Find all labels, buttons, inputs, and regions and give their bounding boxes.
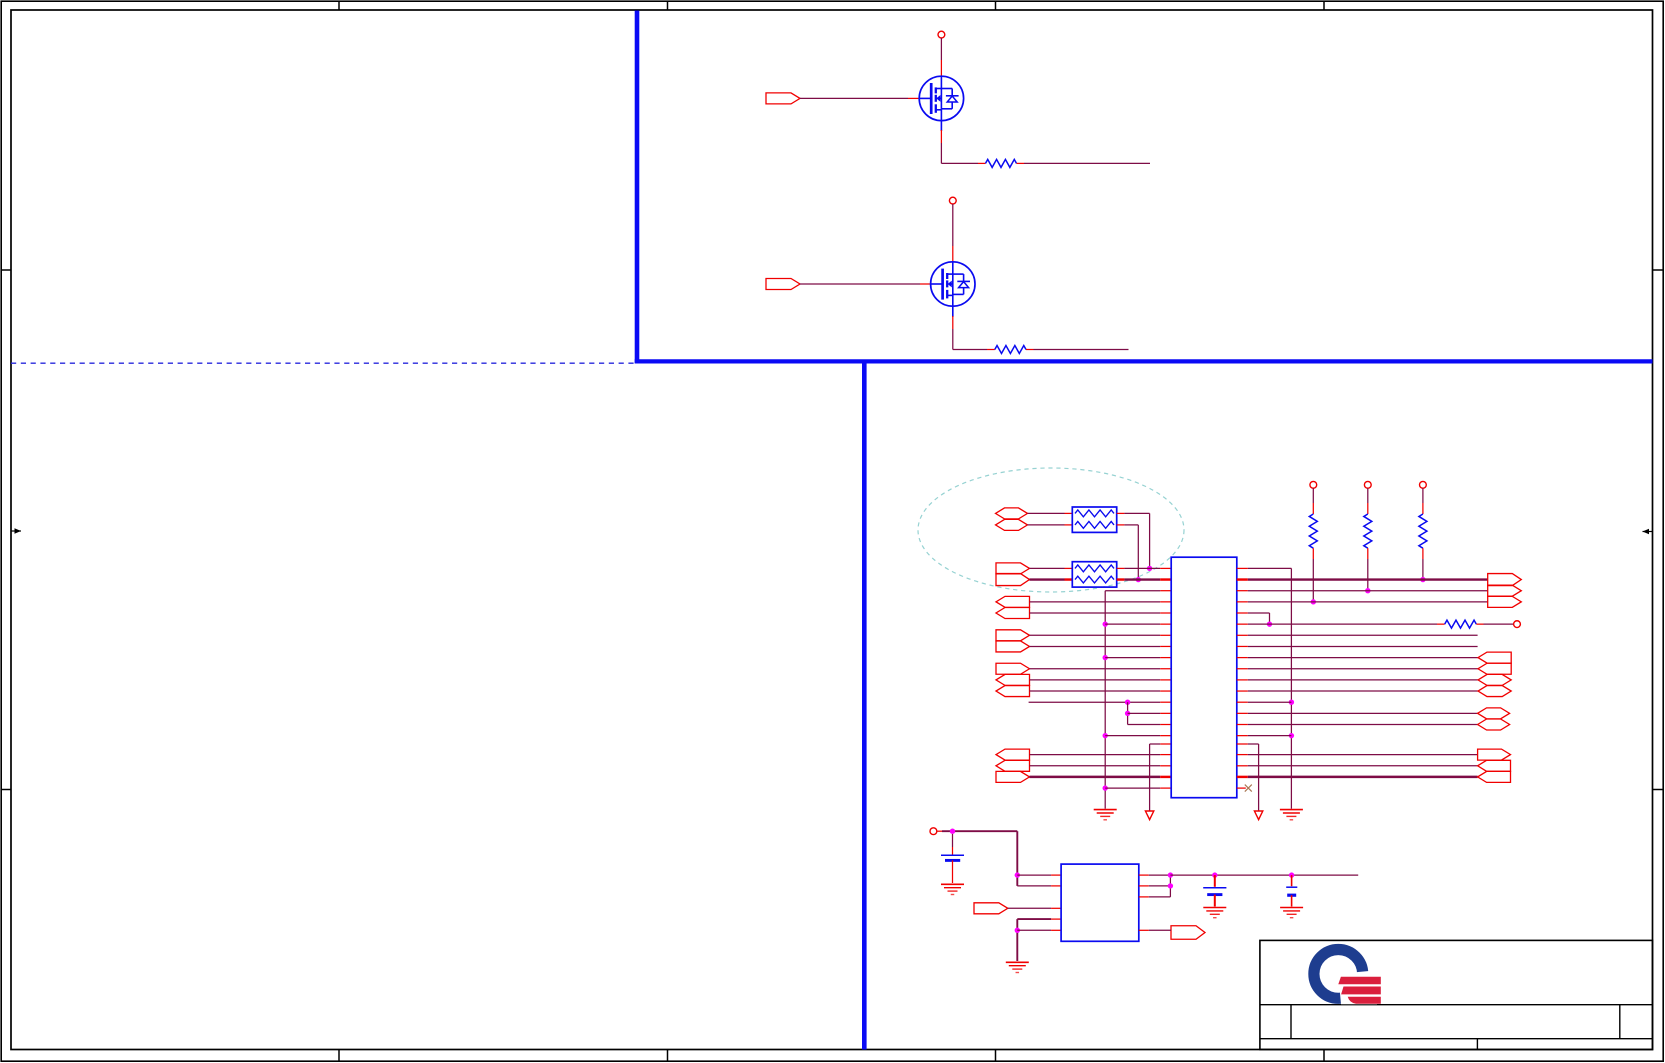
wire U1 row18 right [1237, 754, 1248, 756]
resistor pack RN2 [1072, 562, 1116, 587]
wire rail to U1 row6 [1105, 623, 1160, 625]
ground [1280, 809, 1303, 811]
net label F5 [1478, 708, 1510, 719]
net label F4 [1478, 686, 1511, 697]
net label E2 [1488, 585, 1522, 596]
capacitor C1 [952, 834, 954, 847]
wire after R1 [1017, 162, 1025, 164]
net label C7 [996, 686, 1030, 697]
wire U1 row3 to ground rail [1160, 590, 1171, 592]
junction [1420, 577, 1425, 582]
wire U1 row20 right (bus) [1237, 776, 1248, 778]
wire tie vertical [1169, 875, 1171, 897]
wire row13 stub [1029, 701, 1128, 703]
pin circle [1514, 621, 1521, 628]
junction [1365, 588, 1370, 593]
power pin PU3 [1310, 481, 1317, 488]
wire C3 to U1 [1030, 634, 1161, 636]
wire D1 to U1 [1030, 754, 1161, 756]
net label A1 [996, 508, 1028, 519]
wire U2 pinR2 [1139, 885, 1149, 887]
IC U1 [1171, 557, 1237, 798]
wire D2 to U1 [1030, 765, 1161, 767]
wire U1 row7 right [1237, 634, 1248, 636]
power pin P1 [938, 31, 945, 38]
wire gate Q2 [800, 283, 920, 285]
junction [1168, 872, 1173, 877]
junction [1103, 785, 1108, 790]
wire U1 row8 right [1237, 645, 1248, 647]
wire gate Q1 [800, 97, 908, 99]
wire U2 pinR4 [1139, 929, 1149, 931]
net label H2 [1171, 926, 1205, 940]
ground [1203, 907, 1226, 909]
junction [1311, 599, 1316, 604]
net label E1 [1488, 574, 1522, 586]
resistor RP2 [1364, 514, 1372, 548]
wire pull-up 2 bottom [1367, 548, 1369, 559]
wire U2 pin4 [1051, 918, 1061, 920]
junction [1168, 883, 1173, 888]
net label F2 [1478, 663, 1511, 674]
wire source Q2 [952, 306, 954, 317]
net label E3 [1488, 596, 1522, 607]
logo [1314, 950, 1381, 1005]
junction [1103, 655, 1108, 660]
wire B2 to RN2 (bus) [1030, 578, 1065, 580]
net label G2 [766, 279, 800, 290]
section divider vertical 2 (blue) [862, 361, 867, 1049]
junction [1125, 711, 1130, 716]
junction [1267, 621, 1272, 626]
wire RN2 to U1 row2 (bus) [1117, 578, 1125, 580]
wire rail to U1 row21 [1105, 787, 1160, 789]
wire U1 row9 right [1237, 657, 1248, 659]
power pin P2 [949, 197, 956, 204]
wire U1 row5 right [1237, 612, 1248, 614]
junction [1289, 700, 1294, 705]
title block [1260, 940, 1653, 1049]
IC U2 [1061, 864, 1139, 941]
wire U1 row15 right [1237, 724, 1248, 726]
net label F3 [1478, 674, 1511, 685]
net label G5 [1478, 771, 1511, 782]
wire out net [1170, 874, 1358, 876]
net label F1 [1478, 652, 1511, 663]
junction [950, 829, 955, 834]
wire RN2 to U1 row1 [1117, 567, 1125, 569]
wire pull-up 1 top [1422, 488, 1424, 503]
wire R6 to pin [1476, 623, 1483, 625]
wire U1 row21 right stub [1237, 787, 1246, 789]
net label F6 [1478, 719, 1510, 730]
net label G1 [766, 93, 800, 104]
junction [1212, 872, 1217, 877]
wire B1 to RN2 [1030, 567, 1065, 569]
wire rail to U1 row16 [1105, 735, 1160, 737]
resistor RP1 [1419, 514, 1427, 548]
wire U1 row16 right [1237, 735, 1248, 737]
wire U1 row19 right [1237, 765, 1248, 767]
wire C5 to U1 [1030, 668, 1161, 670]
wire tie 13-15 vertical [1127, 702, 1129, 724]
wire U1 row12 right [1237, 690, 1248, 692]
transistor Q2 [931, 262, 975, 306]
net label C6 [996, 674, 1030, 685]
wire RN1 out top [1117, 512, 1125, 514]
junction [1103, 733, 1108, 738]
wire vcc net [937, 830, 942, 832]
wire U1 row15 [1160, 724, 1171, 726]
net label C2 [996, 608, 1030, 619]
wire pull-up 3 top [1312, 488, 1314, 503]
transistor Q1 [919, 76, 963, 120]
wire U1 row17 left [1160, 743, 1171, 745]
wire U1 row13 right [1237, 701, 1248, 703]
resistor R1 [986, 159, 1017, 167]
wire U2 pin2 [1017, 885, 1051, 887]
junction [1125, 700, 1130, 705]
wire after R2 [1026, 349, 1034, 351]
net label D2 [996, 760, 1030, 771]
wire U1 row1 right to ground rail [1237, 567, 1248, 569]
junction [1289, 733, 1294, 738]
wire C7 to U1 [1030, 690, 1161, 692]
net label G3 [1478, 749, 1511, 760]
wire U1 row14 right [1237, 712, 1248, 714]
net label C4 [996, 641, 1030, 652]
junction [1147, 566, 1152, 571]
no-connect X [1245, 785, 1252, 792]
resistor pack RN1 [1072, 507, 1116, 532]
wire U1 row11 right [1237, 679, 1248, 681]
net label C1 [996, 596, 1030, 607]
junction [1103, 621, 1108, 626]
net label A2 [996, 519, 1028, 530]
wire U2 pin1 [1017, 874, 1051, 876]
ground [1094, 809, 1117, 811]
wire C6 to U1 [1030, 679, 1161, 681]
section divider horizontal (blue) [635, 359, 1653, 363]
wire RN1 out bottom [1117, 524, 1125, 526]
net label D1 [996, 749, 1030, 760]
wire U1 row17 right [1237, 743, 1248, 745]
net label C3 [996, 630, 1030, 641]
net label H1 [974, 903, 1008, 914]
wire pull-up 2 top [1367, 488, 1369, 503]
ground [1280, 907, 1303, 909]
power pin PU2 [1364, 481, 1371, 488]
power pin P3 [930, 828, 937, 835]
wire drain Q1 [940, 38, 942, 60]
wire D3 to U1 (bus) [1030, 776, 1161, 778]
section divider vertical (blue) [635, 11, 640, 364]
ground [941, 883, 964, 885]
wire U1 row14 [1160, 712, 1171, 714]
section divider dashed [11, 362, 634, 364]
wire U1 row6 right [1237, 623, 1248, 625]
net label B1 [996, 563, 1030, 574]
power flag down-arrow left [1145, 811, 1153, 820]
ground [1006, 961, 1029, 963]
wire C2 to U1 [1030, 612, 1161, 614]
junction [1289, 872, 1294, 877]
wire pull-up 3 bottom [1312, 548, 1314, 559]
resistor R2 [995, 346, 1026, 354]
power pin PU1 [1420, 481, 1427, 488]
wire U1 row4 right [1237, 601, 1248, 603]
power flag down-arrow right [1254, 811, 1262, 820]
wire U2 pinR1 [1139, 874, 1149, 876]
resistor R6 [1445, 620, 1477, 628]
wire U2 pin5 [1017, 929, 1051, 931]
wire C1 to U1 [1030, 601, 1161, 603]
capacitor C3 [1291, 875, 1293, 886]
wire U1 row10 right [1237, 668, 1248, 670]
highlight ellipse [918, 468, 1184, 592]
wire source Q1 [940, 121, 942, 131]
net label C5 [996, 663, 1030, 674]
net label B2 [996, 574, 1030, 586]
junction [1015, 872, 1020, 877]
wire U2 pinR3 [1139, 896, 1149, 898]
wire U1 row2 right (bus) [1237, 578, 1248, 580]
wire drain Q2 [952, 204, 954, 246]
resistor RP3 [1309, 514, 1317, 548]
net label G4 [1478, 760, 1511, 771]
net label D3 [996, 771, 1030, 782]
junction [1015, 928, 1020, 933]
wire pull-up 1 bottom [1422, 548, 1424, 559]
wire U1 row3 right [1237, 590, 1248, 592]
wire U2 pin3 [1008, 907, 1051, 909]
junction [1136, 577, 1141, 582]
capacitor C2 [1214, 875, 1216, 887]
wire A2 to RN1 [1028, 524, 1065, 526]
wire rail to U1 row9 [1105, 657, 1160, 659]
wire A1 to RN1 [1028, 512, 1065, 514]
wire C4 to U1 [1030, 645, 1161, 647]
